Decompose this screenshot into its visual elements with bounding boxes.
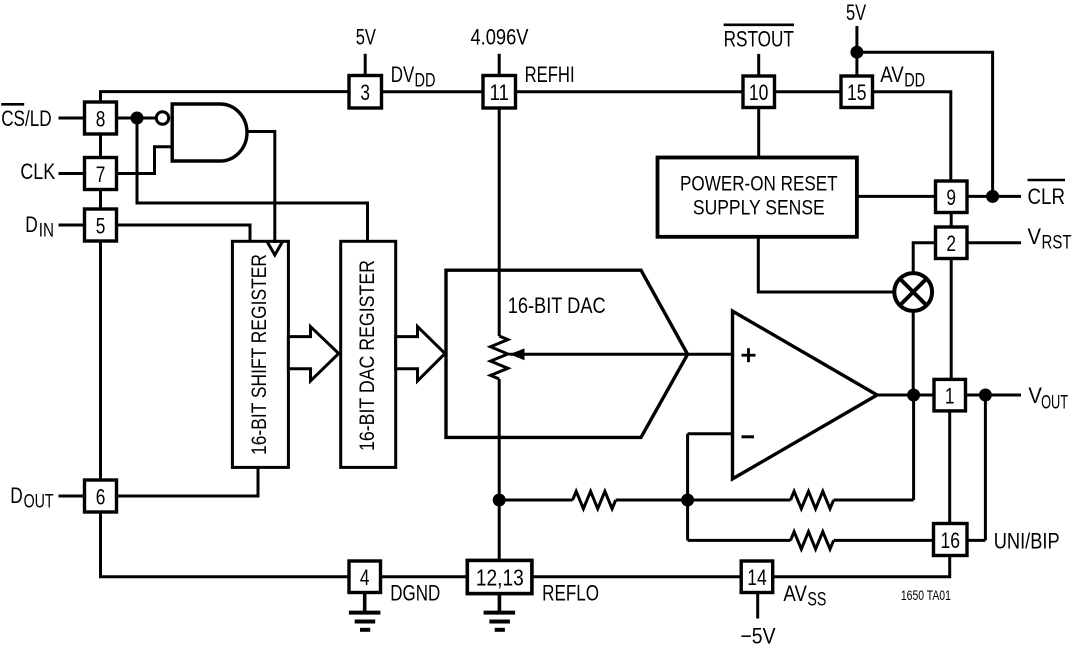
svg-text:DD: DD — [415, 71, 436, 92]
block 16-BIT DAC REGISTER — [341, 241, 396, 467]
svg-text:5V: 5V — [356, 24, 376, 49]
svg-text:15: 15 — [847, 80, 867, 105]
svg-text:UNI/BIP: UNI/BIP — [994, 529, 1060, 554]
wire pin5-pin6 connector — [99, 241, 102, 480]
svg-text:16: 16 — [941, 528, 961, 553]
wire pin2 to VRST — [967, 241, 1021, 244]
wire pin1-pin16 connector — [948, 411, 951, 524]
wire 5V to CLR tie — [857, 52, 993, 196]
pin 14 — [741, 561, 773, 593]
pin 16 — [934, 524, 968, 556]
gate U1 AND with inverted input — [156, 104, 247, 161]
wire pin5-pin7 connector — [99, 190, 102, 210]
pin 7 — [85, 158, 117, 190]
svg-text:CS/LD: CS/LD — [1, 106, 51, 131]
label DVDD — [391, 62, 436, 92]
svg-text:OUT: OUT — [1041, 393, 1068, 414]
block 16-BIT DAC pentagon — [446, 270, 688, 437]
wire feedback up-leg — [912, 395, 915, 500]
wire DIN to shift register — [117, 225, 251, 241]
wire VOUT node to UNI/BIP — [984, 395, 987, 540]
wire feedback node to R3 — [688, 539, 791, 542]
multiplier (reset switch) symbol — [894, 273, 932, 311]
wire multiplier to output node — [912, 311, 915, 396]
pin 11 — [483, 76, 516, 109]
wire pin14 to -5V — [756, 593, 759, 619]
resistor DAC ladder (vertical) — [491, 336, 508, 379]
wire REFLO node to resistor R1 — [499, 499, 572, 502]
node VOUT junction — [979, 389, 992, 402]
node REFHI divider junction — [493, 494, 506, 507]
wire CS/LD stub — [59, 117, 85, 120]
pin 2 — [936, 227, 968, 259]
pin 6 — [85, 480, 117, 512]
pin 8 — [85, 102, 117, 134]
wire pin9-pin2 connector — [950, 213, 953, 228]
wire bottom bus pin14 to pin16 — [773, 556, 950, 577]
svg-text:DD: DD — [904, 71, 925, 92]
svg-text:16-BIT DAC: 16-BIT DAC — [508, 293, 606, 318]
svg-text:14: 14 — [747, 565, 767, 590]
wire gate output to shift register clock — [248, 132, 275, 244]
pin 10 — [743, 76, 775, 108]
svg-text:−5V: −5V — [741, 624, 776, 646]
label VOUT — [1028, 383, 1068, 414]
wire pin10 to POR box — [757, 108, 760, 158]
label CS/LD — [1, 104, 51, 131]
svg-text:4.096V: 4.096V — [471, 24, 529, 49]
node junction CLR — [986, 190, 999, 203]
wire REFHI vertical into DAC — [498, 108, 501, 336]
wire op amp - input — [688, 432, 733, 435]
node junction CS/LD — [131, 112, 144, 125]
wire R1 to feedback node — [616, 499, 688, 502]
svg-text:11: 11 — [490, 80, 510, 105]
wire pin8 to junction and bubble — [117, 117, 157, 120]
wire op amp output to pin1 — [877, 394, 935, 397]
wire CS/LD to DAC register load — [137, 118, 368, 241]
wire pin10 to pin15 — [775, 90, 842, 93]
wire POR to multiplier — [758, 237, 894, 292]
pin 1 — [934, 379, 966, 411]
svg-text:SS: SS — [807, 590, 826, 611]
arrowhead clock into shift register — [267, 242, 282, 255]
label DIN — [25, 212, 54, 242]
pin 4 — [349, 561, 381, 593]
svg-text:REFLO: REFLO — [542, 581, 599, 606]
svg-text:7: 7 — [96, 162, 106, 187]
label RSTOUT — [724, 25, 794, 52]
wire DAC wiper to op amp + input — [510, 353, 733, 356]
wire DOUT to shift register bottom — [117, 467, 259, 496]
wire pin6 to DGND bus — [101, 512, 350, 577]
svg-text:16-BIT SHIFT REGISTER: 16-BIT SHIFT REGISTER — [248, 254, 271, 455]
node junction 5V/AVDD/CLR — [850, 46, 863, 59]
wire pin16 to UNI/BIP vertical — [967, 539, 985, 542]
resistor R1 — [573, 491, 616, 508]
op-amp U3 — [733, 311, 878, 479]
svg-text:10: 10 — [749, 80, 769, 105]
label AVSS — [783, 581, 826, 611]
label CLR — [1028, 180, 1066, 209]
pin 3 — [349, 76, 382, 109]
svg-text:IN: IN — [39, 221, 54, 242]
wire top bus DVDD/REFHI from pin8 column to pin3 — [101, 92, 350, 102]
wire pin2 to multiplier top — [913, 243, 935, 274]
svg-text:2: 2 — [946, 231, 956, 256]
wire bottom bus DGND segment — [381, 575, 468, 578]
svg-text:6: 6 — [96, 485, 106, 510]
svg-text:16-BIT DAC REGISTER: 16-BIT DAC REGISTER — [356, 260, 379, 451]
svg-text:9: 9 — [946, 185, 956, 210]
wire DOUT stub — [59, 495, 85, 498]
svg-text:OUT: OUT — [24, 492, 54, 513]
resistor R3 — [791, 532, 834, 549]
svg-text:D: D — [10, 483, 22, 508]
wire R3 to pin16 — [834, 539, 934, 542]
wire pin9 to CLR — [967, 195, 1021, 198]
node output junction — [907, 389, 920, 402]
svg-text:SUPPLY SENSE: SUPPLY SENSE — [693, 196, 825, 219]
pin 12,13 — [467, 560, 532, 593]
block U2 POWER-ON RESET SUPPLY SENSE — [658, 158, 857, 237]
svg-text:AV: AV — [783, 581, 807, 606]
wire CLK stub — [59, 172, 85, 175]
block 16-BIT SHIFT REGISTER — [232, 241, 288, 467]
wire pin11 to pin10 — [516, 90, 744, 93]
label AVDD — [880, 62, 925, 92]
label VRST — [1028, 224, 1072, 254]
svg-text:8: 8 — [96, 107, 106, 132]
svg-text:D: D — [25, 212, 38, 237]
resistor R2 — [791, 491, 834, 508]
wire bottom bus REFLO to pin14 — [532, 575, 742, 578]
svg-text:REFHI: REFHI — [525, 62, 575, 87]
svg-text:DGND: DGND — [390, 581, 440, 606]
wire feedback node to R2 — [688, 499, 791, 502]
wire pin15 to pin9 — [873, 92, 951, 181]
wire RSTOUT stub to pin10 — [757, 54, 760, 76]
svg-text:RST: RST — [1042, 232, 1072, 253]
svg-text:AV: AV — [880, 62, 904, 87]
svg-text:12,13: 12,13 — [476, 565, 524, 591]
wire 5V stub through junction to pin15 — [855, 26, 858, 76]
svg-text:CLR: CLR — [1028, 184, 1066, 209]
label DOUT — [10, 483, 54, 513]
wire CLK to gate input — [117, 147, 173, 174]
pin 5 — [85, 209, 117, 241]
pin 15 — [841, 76, 873, 108]
pin 9 — [936, 181, 968, 213]
svg-text:1: 1 — [945, 384, 955, 409]
svg-text:4: 4 — [360, 565, 370, 590]
wire R2 to output — [834, 499, 914, 502]
wire REFHI vertical to REFLO pin — [498, 379, 501, 561]
wire pin3 to pin11 — [382, 90, 484, 93]
svg-text:1650 TA01: 1650 TA01 — [901, 588, 951, 603]
ground DGND — [349, 593, 381, 630]
wire 5V stub to pin3 — [364, 54, 367, 76]
svg-text:5V: 5V — [846, 0, 866, 25]
arrowhead wiper — [510, 348, 525, 360]
wire pin7-pin8 connector — [99, 134, 102, 158]
svg-text:V: V — [1028, 224, 1042, 249]
wire POR to pin9 — [857, 195, 936, 198]
node feedback junction — [681, 494, 694, 507]
wire DIN stub — [59, 224, 85, 227]
svg-text:RSTOUT: RSTOUT — [724, 27, 794, 52]
wire - input to feedback node — [686, 434, 689, 541]
wire pin1 to VOUT — [966, 394, 1022, 397]
block arrow shift reg to DAC reg — [288, 327, 338, 381]
ground REFLO — [484, 593, 515, 630]
svg-text:3: 3 — [360, 80, 370, 105]
svg-text:POWER-ON RESET: POWER-ON RESET — [680, 173, 838, 196]
wire 4.096V stub to pin11 — [498, 54, 501, 76]
svg-text:DV: DV — [391, 62, 415, 87]
svg-text:5: 5 — [96, 214, 106, 239]
block arrow DAC reg to DAC — [396, 327, 445, 381]
svg-text:CLK: CLK — [20, 159, 55, 184]
wire pin2-pin1 connector — [950, 259, 953, 380]
